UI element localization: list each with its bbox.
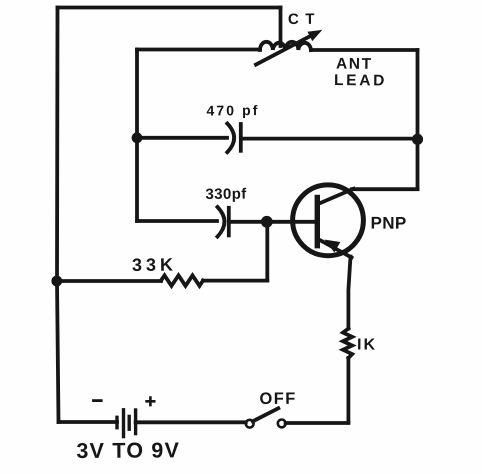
wire: collector to right rail [352,187,418,191]
capacitor C 470pf [227,124,234,153]
wire: bottom rail left segment (left rail to battery) [59,420,118,424]
wire: switch to bottom-right corner and up [286,421,349,425]
junction dot: 470pf row / inner-left vertical [132,132,143,143]
switch right terminal [278,420,286,428]
battery plus sign [147,398,155,406]
battery minus sign [94,399,102,402]
emitter arrowhead (PNP, points toward base) [326,240,340,251]
wire: 330pf row left segment [137,219,217,223]
transistor collector diagonal [318,189,354,204]
junction dot: 470pf row / right rail [412,134,423,145]
variable-inductor arrow (diagonal through coil) [256,36,311,65]
wire: branch from 330pf junction down to 33K row [265,222,269,281]
switch S1 OFF: left terminal [246,420,254,428]
svg-text:33K: 33K [132,255,177,275]
wire: 470pf row left segment [137,136,227,140]
wire: top wire from left rail to coil tap [58,6,281,10]
svg-text:PNP: PNP [370,214,406,233]
wire: left rail [57,8,59,423]
wire: 33K row from left rail to resistor [57,279,162,283]
transistor emitter diagonal [318,239,352,258]
wire: coil row right segment to right rail [311,48,418,52]
svg-text:IK: IK [357,337,377,354]
transistor Q1 PNP circle [293,185,364,256]
wire: 1K resistor down to bottom rail [346,358,350,422]
wire: 330pf row to transistor base [229,220,315,224]
svg-text:3V TO 9V: 3V TO 9V [76,438,180,463]
junction dot: 330pf row / 33K branch [261,216,273,228]
switch lever [253,408,278,421]
wire: emitter down to 1K resistor [348,257,350,329]
resistor R 1K (vertical zigzag) [343,329,352,359]
svg-text:LEAD: LEAD [334,72,387,89]
svg-text:470 pf: 470 pf [206,102,259,118]
wire: coil row left segment [137,48,260,52]
wire: 33K row to branch corner [203,279,267,283]
wire: 470pf row right segment [241,137,418,141]
wire: coil center-tap vertical [279,8,283,47]
wire: battery to switch [136,420,246,424]
svg-text:330pf: 330pf [205,186,247,203]
inductor CT (center-tapped variable coil) [260,42,311,50]
svg-text:ANT: ANT [336,56,373,73]
transistor base bar [315,198,320,246]
svg-text:CT: CT [288,11,321,28]
capacitor C 330pf [218,207,225,237]
junction dot: left rail / 33K row [51,276,62,287]
resistor R 33K [161,275,203,285]
battery B1 plates (short,tall,short,tall) [115,417,118,427]
svg-text:OFF: OFF [259,390,296,408]
wire: inner-left vertical (coil row down to 330pf row) [135,50,139,222]
wire: right rail (coil to collector wire) [416,50,420,189]
